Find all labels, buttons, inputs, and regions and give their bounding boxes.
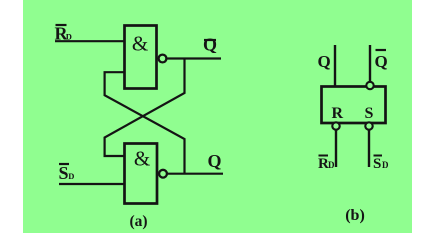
svg-text:D: D <box>66 32 72 42</box>
svg-text:D: D <box>68 171 74 181</box>
svg-text:S: S <box>373 156 381 172</box>
wire feedback from U2 output to U1 input <box>105 72 185 174</box>
nand gate U1 (top) <box>125 26 157 89</box>
svg-text:(b): (b) <box>345 207 365 224</box>
bubble S input on block <box>365 122 372 129</box>
svg-text:Q: Q <box>208 151 222 171</box>
wire Qbar top-right <box>369 45 371 81</box>
svg-text:R: R <box>332 105 344 122</box>
svg-text:(a): (a) <box>129 213 147 230</box>
bubble Qbar on block <box>366 82 373 89</box>
svg-text:S: S <box>365 105 374 122</box>
wire SD bottom-right <box>368 130 370 167</box>
label RD-bar input <box>55 24 72 44</box>
label RD-bar bottom <box>318 156 335 173</box>
output bubble U2 <box>159 170 167 178</box>
nand gate U2 (bottom) <box>125 144 158 204</box>
wire Q top-left <box>334 45 336 87</box>
svg-text:S: S <box>59 163 69 183</box>
wire RD input to U1 <box>55 40 125 42</box>
wire Q output <box>167 173 223 175</box>
label Q output <box>208 151 222 171</box>
label SD-bar bottom <box>373 156 389 173</box>
wire Qbar output <box>167 57 222 59</box>
label Qbar output <box>203 35 217 55</box>
svg-text:Q: Q <box>375 52 388 71</box>
label SD-bar input <box>59 163 75 183</box>
svg-text:D: D <box>328 160 335 170</box>
wire SD input to U2 <box>59 183 125 185</box>
label Qbar top <box>375 50 388 71</box>
bubble R input on block <box>332 122 339 129</box>
wire feedback from U1 output to U2 input <box>105 59 185 157</box>
wire RD bottom-left <box>335 130 337 167</box>
svg-text:&: & <box>134 147 150 171</box>
svg-text:Q: Q <box>318 52 331 71</box>
svg-text:D: D <box>382 160 389 170</box>
svg-text:&: & <box>132 32 148 56</box>
output bubble U1 <box>159 55 167 63</box>
latch block U3 <box>322 87 386 124</box>
svg-text:Q: Q <box>203 35 217 55</box>
